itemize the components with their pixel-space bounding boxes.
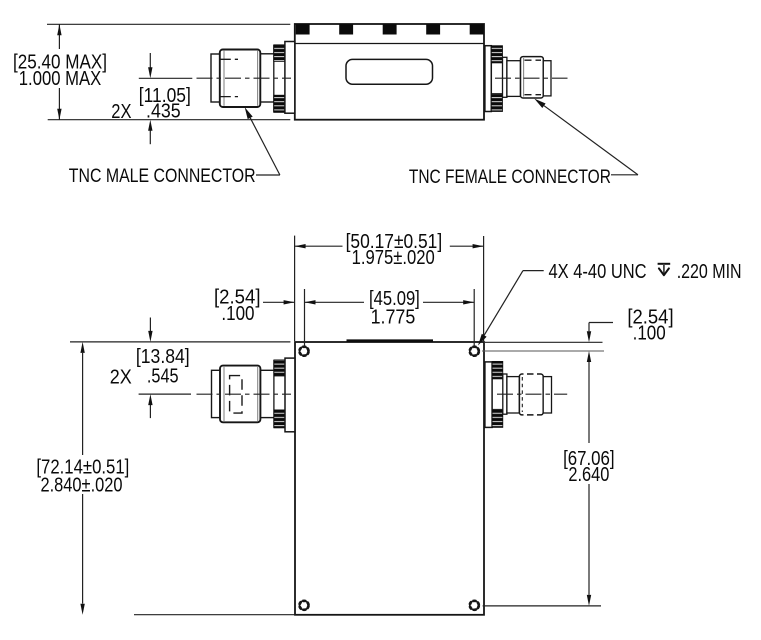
svg-text:TNC MALE CONNECTOR: TNC MALE CONNECTOR [69, 165, 256, 187]
symbol: thread depth symbol [658, 264, 671, 275]
dimension [67.06]: dimension line and arrow [588, 362, 590, 443]
dimension [2.54] right: jog line, stem and arrows [589, 322, 613, 324]
svg-text:2.840±.020: 2.840±.020 [41, 473, 123, 496]
TNC male connector (plan view): thread tip [212, 370, 221, 417]
dimension [50.17]: right extension line [483, 236, 485, 341]
TNC female connector (plan view): mounting flange [485, 362, 492, 428]
dimension [50.17]: left extension line [294, 236, 296, 341]
TNC female connector (plan view): centerline [497, 393, 567, 395]
TNC female connector (plan view): step section [503, 374, 507, 414]
svg-text:2.640: 2.640 [568, 463, 609, 486]
svg-text:1.775: 1.775 [371, 305, 416, 328]
dimension [25.40 MAX]: top extension line [47, 23, 290, 25]
leader: 4X 4-40 UNC tapped hole callout [478, 334, 487, 346]
TNC male connector (side view): lower knurled jam nut [274, 95, 285, 112]
TNC female connector (plan view): lower knurled jam nut [492, 409, 503, 427]
svg-text:1.975±.020: 1.975±.020 [352, 246, 435, 269]
TNC male connector (plan view): lower knurled jam nut [274, 410, 285, 428]
side view: lid black tooth 2 [339, 24, 353, 34]
side view: lid black tooth 1 [296, 24, 310, 34]
TNC female connector (side view): centerline [495, 77, 568, 79]
TNC male connector (plan view): mounting flange [285, 358, 295, 432]
leader: TNC female connector callout [534, 99, 545, 108]
dimension [25.40 MAX]: down arrow [57, 109, 61, 120]
side view: lid black tooth 4 [426, 24, 440, 34]
dimension [25.40 MAX]: up arrow [57, 24, 61, 35]
TNC female connector (plan view): barrel [507, 377, 520, 413]
dimension [72.14]: dimension line and arrows [82, 353, 84, 455]
plan view: threaded hole top-left [300, 347, 309, 356]
TNC male connector (side view): coupling nut [220, 50, 260, 108]
dimension [50.17]: dimension line and arrows [295, 245, 343, 247]
svg-text:TNC FEMALE CONNECTOR: TNC FEMALE CONNECTOR [409, 166, 611, 188]
svg-text:1.000 MAX: 1.000 MAX [19, 67, 102, 90]
svg-text:.100: .100 [221, 302, 254, 325]
side view: label slot rounded rectangle [346, 59, 433, 84]
dimension [45.09]: dimension line and arrows [305, 301, 365, 303]
plan view: slot far edge thick segment [347, 339, 434, 342]
side view: lid black tooth 5 [470, 24, 484, 34]
dimension 2X .545: lower stem and arrow [149, 405, 151, 418]
TNC female connector (side view): step section [503, 57, 507, 97]
svg-text:.545: .545 [147, 365, 179, 388]
TNC male connector (plan view): coupling nut [220, 366, 260, 423]
dimension [25.40 MAX]: dimension line [58, 24, 60, 49]
TNC male connector (plan view): upper knurled jam nut [274, 360, 285, 376]
dimension [2.54] left: dimension line and arrow [263, 301, 295, 303]
dimension [45.09]: hole extension lines [304, 289, 306, 347]
TNC female connector (plan view): hex nut body dashed outline [519, 374, 543, 415]
dimension [25.40 MAX]: bottom extension line [48, 119, 291, 121]
plan view: threaded hole bottom-left [300, 601, 309, 610]
TNC male connector (plan view): centerline [197, 393, 292, 395]
svg-text:2X: 2X [110, 366, 132, 389]
extension line: plan top edge extended right [485, 341, 603, 343]
TNC male connector (side view): mounting flange [285, 42, 295, 114]
svg-text:.435: .435 [146, 99, 181, 122]
dimension 2X .435: lower stem and arrow [149, 131, 151, 145]
TNC female connector (side view): front tip [543, 61, 551, 96]
TNC female connector (side view): lower knurled jam nut [491, 94, 502, 112]
TNC female connector (plan view): front tip [543, 377, 551, 413]
TNC female connector (side view): upper knurled jam nut [491, 46, 502, 63]
leader: TNC male connector callout [245, 107, 253, 119]
TNC female connector (plan view): upper knurled jam nut [492, 361, 503, 379]
side view: lid black tooth 3 [383, 24, 397, 34]
dimension 2X .545: upper stem and arrow [149, 318, 151, 332]
extension line: top hole centerline extended right [482, 350, 604, 352]
TNC male connector (side view): thread tip [211, 54, 220, 102]
side view: device body outline [295, 24, 484, 120]
svg-text:.100: .100 [633, 322, 666, 345]
svg-text:4X 4-40 UNC: 4X 4-40 UNC [549, 260, 647, 283]
svg-text:.220 MIN: .220 MIN [677, 260, 742, 283]
TNC male connector (side view): nut inner shading lines [223, 51, 225, 106]
TNC male connector (side view): hidden thread dashes [220, 58, 238, 60]
dimension 2X .545: dimension line at centerline [139, 393, 191, 395]
TNC female connector (side view): mounting flange [485, 46, 491, 112]
side view: lid seam line [295, 43, 484, 45]
extension line: plan top edge extended left [70, 341, 290, 343]
TNC male connector (plan view): hidden center pin dashed rectangle [230, 376, 242, 414]
plan view: threaded hole bottom-right [470, 601, 479, 610]
TNC male connector (side view): upper knurled jam nut [274, 45, 285, 62]
TNC female connector (side view): hex nut body [521, 57, 544, 98]
svg-text:2X: 2X [111, 100, 131, 123]
extension line: plan bottom edge extended left [134, 614, 295, 616]
TNC male connector (side view): centerline [197, 77, 292, 79]
plan view: threaded hole top-right [470, 347, 479, 356]
extension line: bottom hole centerline extended right [483, 605, 601, 607]
dimension 2X .435: dimension line at centerline [139, 77, 193, 79]
dimension 2X .435: upper stem and arrow [149, 53, 151, 68]
TNC female connector (side view): barrel [507, 61, 521, 97]
TNC male connector (plan view): barrel [260, 369, 274, 371]
TNC male connector (side view): barrel [260, 53, 274, 55]
plan view: device body outline [295, 342, 484, 615]
